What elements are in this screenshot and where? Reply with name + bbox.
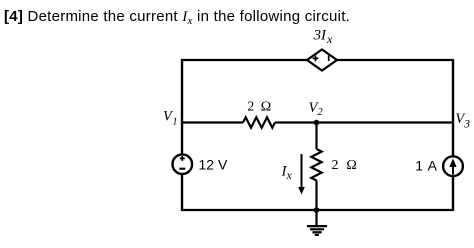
wire left vertical <box>181 59 183 211</box>
resistor R1 2ohm horizontal <box>243 117 275 127</box>
label 12 V <box>199 156 228 172</box>
title text <box>4 8 350 27</box>
wire right vertical <box>452 59 454 211</box>
label 2 ohm (horizontal resistor) <box>247 99 272 114</box>
node V1 label <box>163 108 178 127</box>
wire top-left segment <box>181 59 307 61</box>
label Ix <box>281 164 293 182</box>
dependent voltage source 3Ix (diamond) <box>307 50 337 71</box>
wire middle left (V1 to resistor) <box>181 121 243 123</box>
svg-text:12 V: 12 V <box>199 156 228 172</box>
junction dot bottom node <box>314 207 320 213</box>
ground <box>307 210 327 235</box>
svg-text:2 Ω: 2 Ω <box>247 99 272 114</box>
wire bottom <box>181 209 454 211</box>
label 2 ohm (vertical resistor) <box>332 158 360 173</box>
label 3Ix <box>313 27 334 46</box>
junction dot node V2 <box>314 120 320 126</box>
svg-text:2 Ω: 2 Ω <box>332 158 360 173</box>
wire middle right (resistor to V3) <box>275 121 454 123</box>
svg-text:1 A: 1 A <box>415 158 437 174</box>
voltage source 12V <box>173 154 193 174</box>
wire top-right segment <box>337 59 454 61</box>
svg-text:[4] Determine the current Ix i: [4] Determine the current Ix in the foll… <box>4 8 350 27</box>
node V3 label <box>455 111 470 131</box>
label 1 A <box>415 158 437 174</box>
resistor R2 2ohm vertical <box>311 149 321 181</box>
node V2 label <box>309 100 324 118</box>
current arrow Ix <box>298 154 305 195</box>
wire vertical stem V2 to resistor R2 <box>315 123 317 150</box>
current source 1A <box>443 156 463 176</box>
wire resistor R2 to bottom node <box>315 181 317 211</box>
